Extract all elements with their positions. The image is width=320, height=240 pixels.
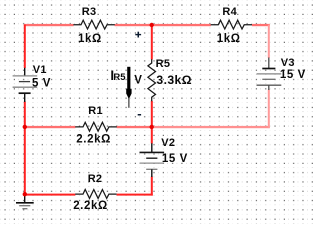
svg-text:R4: R4	[222, 6, 237, 18]
svg-text:2.2kΩ: 2.2kΩ	[76, 134, 111, 146]
svg-text:3.3kΩ: 3.3kΩ	[156, 73, 192, 87]
svg-text:R5: R5	[156, 58, 171, 70]
svg-text:1kΩ: 1kΩ	[217, 33, 241, 45]
svg-text:V1: V1	[33, 64, 47, 76]
svg-text:V: V	[134, 75, 142, 87]
svg-text:R2: R2	[88, 173, 103, 185]
svg-text:15 V: 15 V	[280, 69, 306, 81]
svg-text:V2: V2	[161, 137, 175, 149]
svg-text:R1: R1	[88, 105, 103, 117]
svg-text:5 V: 5 V	[32, 78, 51, 90]
svg-text:V3: V3	[281, 57, 295, 69]
svg-text:2.2kΩ: 2.2kΩ	[73, 200, 108, 212]
svg-text:R3: R3	[82, 6, 97, 18]
svg-text:1kΩ: 1kΩ	[78, 33, 102, 45]
svg-text:R5: R5	[113, 72, 126, 83]
svg-text:15 V: 15 V	[162, 153, 188, 165]
